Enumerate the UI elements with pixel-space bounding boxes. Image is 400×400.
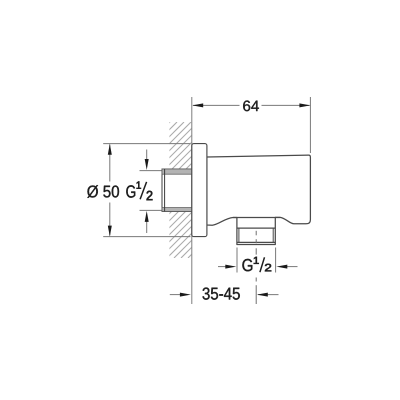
wall flange (escutcheon) [192, 144, 207, 237]
dimension G1/2 bottom: fraction numerator "1" [254, 257, 259, 264]
dimension G1/2 left: fraction numerator "1" [137, 182, 141, 189]
dimension 64: right extension line [309, 97, 311, 153]
centerline extension for 35-45 [255, 285, 257, 304]
dimension 35-45: left arrowhead (pointing right at wall face) [180, 293, 191, 297]
dimension 64: value label "64" [243, 101, 259, 112]
outlet thread detail [237, 228, 275, 242]
dimension 64: dimension line [193, 104, 310, 106]
dimension G1/2 left: fraction slash [140, 182, 147, 199]
dimension G1/2 left: lower arrowhead (pointing up) [145, 211, 149, 222]
dimension 35-45: right arrowhead (pointing left at outlet centerline) [257, 293, 268, 297]
dimension G1/2 left: label letter "G" [126, 185, 135, 197]
boss top edge (body bottom line across outlet boss) [233, 216, 280, 218]
threaded inlet block behind wall [162, 169, 192, 211]
dimension 64: left arrowhead [192, 103, 203, 107]
dimension G1/2 bottom: dimension lines (tails) [218, 266, 298, 268]
dimension 35-45: value label "35-45" [203, 288, 240, 300]
dimension G1/2 left: extension lines [140, 171, 162, 211]
dimension G1/2 bottom: left arrowhead (pointing right) [225, 265, 236, 269]
body with outlet boss [207, 155, 311, 244]
dimension 35-45: dimension lines (tails) [170, 294, 279, 296]
dimension Ø50: top extension line [103, 143, 190, 145]
dimension G1/2 bottom: fraction denominator "2" [265, 264, 271, 272]
dimension G1/2 left: fraction denominator "2" [147, 191, 153, 200]
wall hatching [27, 122, 324, 258]
outlet centerline (dashed) [255, 231, 257, 282]
dimension Ø50: value label "Ø 50" [87, 185, 119, 198]
dimension G1/2 left: dimension lines [146, 150, 148, 234]
wall face line (also left extension line of 64) [191, 97, 193, 304]
dimension 64: right arrowhead [299, 103, 310, 107]
dimension G1/2 bottom: fraction slash [260, 257, 265, 272]
dimension Ø50: top arrowhead [108, 144, 112, 155]
dimension Ø50: bottom arrowhead [108, 226, 112, 237]
dimension G1/2 bottom: extension lines [237, 248, 276, 273]
dimension Ø50: bottom extension line [103, 236, 190, 238]
dimension G1/2 bottom: right arrowhead (pointing left) [276, 265, 287, 269]
dimension G1/2 left: upper arrowhead (pointing down) [145, 159, 149, 170]
dimension G1/2 bottom: label letter "G" [242, 259, 252, 271]
dimension Ø50: dimension line [109, 145, 111, 236]
